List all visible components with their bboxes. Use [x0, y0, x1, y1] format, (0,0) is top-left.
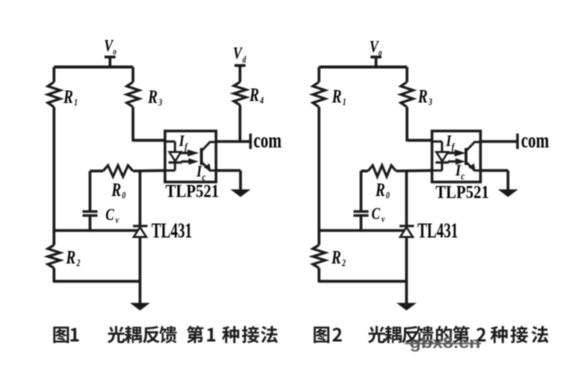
svg-text:4: 4: [259, 95, 264, 106]
svg-text:1: 1: [343, 96, 347, 107]
svg-text:R: R: [375, 179, 385, 200]
svg-text:0: 0: [386, 190, 390, 201]
svg-text:3: 3: [428, 96, 433, 107]
svg-text:R: R: [331, 247, 341, 268]
svg-text:TLP521: TLP521: [166, 181, 220, 201]
svg-text:3: 3: [158, 97, 163, 108]
svg-text:C: C: [106, 207, 115, 225]
svg-text:o: o: [113, 47, 117, 57]
svg-text:0: 0: [122, 190, 126, 201]
svg-text:v: v: [382, 213, 385, 224]
svg-text:R: R: [63, 86, 73, 107]
svg-text:TL431: TL431: [152, 219, 193, 243]
svg-text:2: 2: [341, 257, 346, 268]
svg-text:R: R: [147, 86, 157, 107]
svg-text:R: R: [65, 247, 75, 268]
svg-text:v: v: [116, 214, 119, 225]
svg-text:R: R: [111, 179, 121, 200]
svg-text:com: com: [521, 128, 549, 153]
svg-text:R: R: [417, 86, 427, 107]
svg-text:R: R: [331, 86, 341, 107]
svg-text:com: com: [254, 128, 282, 153]
svg-text:2: 2: [76, 257, 81, 268]
svg-text:1: 1: [74, 97, 78, 108]
svg-text:TLP521: TLP521: [436, 182, 490, 202]
svg-text:TL431: TL431: [418, 219, 459, 243]
svg-text:C: C: [372, 206, 381, 224]
svg-text:o: o: [379, 48, 383, 58]
svg-text:R: R: [249, 84, 259, 105]
